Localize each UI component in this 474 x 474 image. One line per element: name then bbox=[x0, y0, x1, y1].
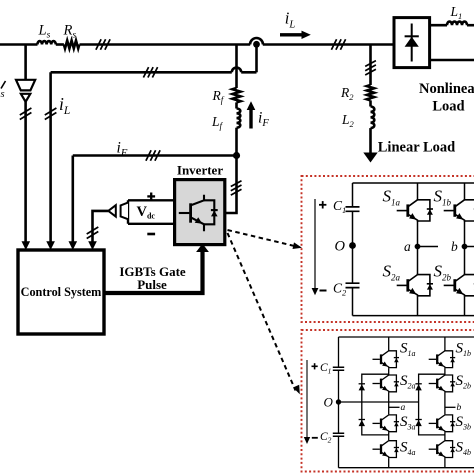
svg-text:O: O bbox=[324, 395, 334, 410]
wire filter branch top bbox=[235, 45, 238, 89]
IGBT S2b box2 bbox=[429, 374, 456, 392]
arrow iL top bbox=[280, 31, 311, 39]
wire iL sense horizontal bbox=[51, 71, 257, 74]
IGBT S1a box2 bbox=[373, 350, 400, 368]
wire source sense line bbox=[24, 102, 27, 242]
wire main bus middle bbox=[80, 43, 395, 46]
bottom rail box2 bbox=[339, 467, 474, 469]
wire iF sense vertical bbox=[72, 156, 75, 243]
node O box2 bbox=[336, 399, 341, 404]
label minus Vdc bbox=[147, 233, 155, 236]
svg-text:Inverter: Inverter bbox=[177, 163, 223, 178]
wire load bottom right bbox=[430, 59, 474, 62]
label plus box1 bbox=[319, 201, 326, 208]
resistor Rs bbox=[64, 41, 79, 49]
voltage arrow box1 bbox=[314, 199, 316, 289]
wire iF sense line bbox=[73, 154, 237, 157]
voltage arrow box2 bbox=[306, 360, 308, 438]
inductor L2 bbox=[371, 107, 375, 129]
dashed arrow to box1 bbox=[228, 230, 295, 246]
svg-text:s: s bbox=[1, 89, 5, 100]
wire bbox=[235, 102, 238, 108]
svg-text:b: b bbox=[451, 239, 458, 254]
Vdc sensor funnel bbox=[121, 203, 128, 220]
wire bbox=[369, 100, 372, 106]
slash marks on iL vertical bbox=[45, 108, 57, 120]
slash marks on iL sense line bbox=[143, 67, 157, 77]
slash marks on main bus bbox=[96, 39, 110, 49]
wire bbox=[56, 43, 64, 46]
node dot iF tap bbox=[233, 152, 240, 159]
IGBT S3a box2 bbox=[373, 414, 400, 432]
neutral O line box2 bbox=[339, 401, 419, 403]
IGBT S1b box2 bbox=[429, 350, 456, 368]
label minus box1 bbox=[320, 290, 327, 292]
node a box1 bbox=[415, 244, 421, 250]
IGBT S4b box2 bbox=[429, 440, 456, 458]
clamp diode D1b bbox=[415, 384, 421, 391]
top rail box2 bbox=[339, 336, 474, 338]
wire main bus left bbox=[0, 43, 38, 46]
svg-text:Load: Load bbox=[432, 99, 464, 115]
clamp chain b box2 bbox=[419, 374, 445, 435]
slash marks on Vdc line bbox=[87, 227, 99, 239]
node dot current sensor bbox=[253, 41, 260, 48]
wire node a stub bbox=[418, 246, 439, 248]
dc rail left box2 bbox=[338, 337, 340, 468]
nonlinear load box bbox=[394, 18, 430, 68]
inverter box bbox=[175, 180, 225, 245]
resistor R2 bbox=[367, 85, 374, 100]
leg a box1 bbox=[417, 183, 419, 316]
source Vs symbol bbox=[16, 80, 35, 102]
slash marks on main bus right bbox=[331, 39, 345, 49]
dc rail left box1 bbox=[352, 183, 354, 316]
wire sensor drop bbox=[255, 45, 258, 73]
svg-text:O: O bbox=[335, 239, 346, 255]
wire source branch bbox=[24, 45, 27, 80]
wire filter branch to dot bbox=[235, 128, 238, 156]
wire filter branch to inverter bbox=[225, 156, 237, 214]
control system box bbox=[18, 250, 104, 334]
capacitor C2 box1 bbox=[346, 283, 360, 287]
resistor Rf bbox=[233, 88, 241, 102]
slash marks on iF sense line bbox=[146, 150, 160, 160]
inductor Ls bbox=[37, 41, 55, 44]
IGBT S1b box1 bbox=[444, 199, 474, 222]
IGBT S2a box1 bbox=[397, 274, 433, 297]
gate pulse arrowhead bbox=[196, 244, 209, 252]
wire bbox=[467, 24, 474, 27]
arrowheads into control box bbox=[22, 241, 31, 250]
bottom rail box1 bbox=[353, 315, 474, 317]
capacitor C2 box2 bbox=[333, 433, 344, 436]
svg-text:Pulse: Pulse bbox=[137, 277, 167, 292]
red dashed box 1 (two-level inverter detail) bbox=[302, 176, 474, 322]
clamp chain a box2 bbox=[362, 374, 389, 435]
IGBT inside inverter bbox=[179, 195, 218, 231]
slash marks on source line bbox=[20, 108, 32, 120]
IGBT S2a box2 bbox=[373, 374, 400, 392]
label Vs partial bbox=[1, 81, 6, 89]
wire node b stub box2 bbox=[445, 406, 456, 408]
svg-text:a: a bbox=[404, 239, 411, 254]
svg-text:a: a bbox=[401, 403, 406, 413]
ground arrow bbox=[363, 153, 377, 163]
inductor L1 bbox=[447, 22, 467, 26]
red dashed box 2 (three-level inverter detail) bbox=[302, 330, 474, 472]
svg-text:b: b bbox=[457, 403, 462, 413]
node O box1 bbox=[349, 242, 356, 249]
IGBT S3b box2 bbox=[429, 414, 456, 432]
top rail box1 bbox=[353, 182, 474, 184]
clamp diode D2a bbox=[359, 420, 365, 427]
label minus box2 bbox=[312, 437, 318, 439]
leg b box2 bbox=[444, 337, 446, 468]
clamp diode D2b bbox=[415, 420, 421, 427]
leg b box1 bbox=[464, 183, 466, 316]
inductor Lf bbox=[237, 109, 241, 128]
slash marks on linear load branch bbox=[365, 61, 376, 75]
wire iL sense vertical bbox=[49, 72, 52, 242]
capacitor C1 box1 bbox=[346, 207, 360, 211]
label plus Vdc bbox=[147, 193, 155, 201]
wire to ground bbox=[369, 128, 372, 153]
wire Vdc sense bbox=[93, 211, 109, 242]
gate pulse line bbox=[104, 250, 203, 293]
wire node b stub bbox=[465, 246, 474, 248]
Vdc sensor box bbox=[128, 200, 175, 224]
node b box1 bbox=[462, 244, 468, 250]
dashed arrow to box2 bbox=[228, 233, 296, 391]
IGBT S2b box1 bbox=[444, 274, 474, 297]
label plus box2 bbox=[312, 363, 318, 369]
wire node a stub box2 bbox=[389, 406, 400, 408]
wire linear load branch bbox=[369, 45, 372, 86]
diode D1 inside box bbox=[405, 24, 419, 62]
capacitor C1 box2 bbox=[333, 367, 344, 370]
slash marks on filter vertical bbox=[231, 181, 242, 195]
Vdc sensor triangle bbox=[108, 205, 116, 216]
wire load top right bbox=[430, 24, 447, 27]
arrow iF bbox=[247, 101, 256, 128]
current sensor hop bbox=[250, 38, 263, 44]
svg-text:Nonlinear: Nonlinear bbox=[419, 81, 474, 97]
crossover hop bbox=[232, 68, 241, 73]
clamp diode D1a bbox=[359, 384, 365, 391]
svg-text:Linear Load: Linear Load bbox=[378, 140, 455, 156]
leg a box2 bbox=[388, 337, 390, 468]
IGBT S1a box1 bbox=[397, 199, 433, 222]
svg-text:Control System: Control System bbox=[21, 285, 102, 299]
IGBT S4a box2 bbox=[373, 440, 400, 458]
